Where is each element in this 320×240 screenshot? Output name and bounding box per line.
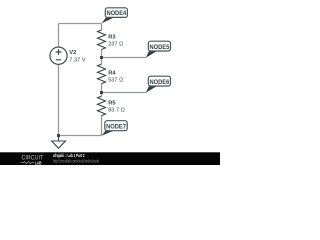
resistor R4 xyxy=(98,64,106,84)
svg-text:83.7 Ω: 83.7 Ω xyxy=(108,108,125,114)
svg-text:R4: R4 xyxy=(108,70,116,76)
wire stub to NODE5 flag xyxy=(102,57,147,59)
wire right vertical R3 to node A xyxy=(101,50,103,65)
wire left vertical lower (V2 bottom to bottom corner) xyxy=(58,64,60,135)
flag NODE4 xyxy=(102,8,128,24)
wire left vertical upper (top corner to V2 top) xyxy=(58,24,60,48)
CircuitLab logo resistor squiggle xyxy=(21,161,35,163)
svg-text:CIRCUIT: CIRCUIT xyxy=(22,154,44,161)
svg-text:NODE7: NODE7 xyxy=(106,123,126,130)
node B junction dot xyxy=(100,91,103,94)
wire right vertical stub above R3 xyxy=(101,24,103,31)
svg-text:NODE6: NODE6 xyxy=(150,79,170,86)
wire right vertical R4 to node B xyxy=(101,84,103,97)
svg-text:237 Ω: 237 Ω xyxy=(108,41,123,47)
svg-text:V2: V2 xyxy=(69,50,76,56)
svg-text:R3: R3 xyxy=(108,34,116,40)
svg-text:LAB: LAB xyxy=(35,160,42,165)
ground xyxy=(52,136,66,149)
svg-text:NODE4: NODE4 xyxy=(106,10,126,17)
wire right vertical below R5 xyxy=(101,116,103,136)
svg-text:NODE5: NODE5 xyxy=(150,44,170,51)
resistor R5 xyxy=(98,96,106,116)
voltage source V2 xyxy=(50,47,67,64)
flag NODE6 xyxy=(146,76,171,93)
svg-text:R5: R5 xyxy=(108,101,116,107)
footer bar xyxy=(0,152,220,165)
node A junction dot xyxy=(100,56,103,59)
wire top: left corner to right corner xyxy=(59,23,102,25)
flag NODE7 xyxy=(102,121,128,136)
flag NODE5 xyxy=(146,41,171,58)
resistor R3 xyxy=(98,30,106,50)
wire stub to NODE6 flag xyxy=(102,92,147,94)
svg-text:537 Ω: 537 Ω xyxy=(108,78,123,84)
wire bottom: left corner to right corner xyxy=(59,135,102,137)
svg-text:http://circuitlab.com/c4sq7ov5: http://circuitlab.com/c4sq7ov5m2ceok xyxy=(53,158,100,163)
ground junction dot xyxy=(57,134,60,137)
svg-text:7.37 V: 7.37 V xyxy=(69,57,85,63)
